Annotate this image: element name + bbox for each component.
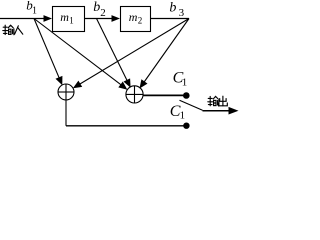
- wire b1 to right adder: [34, 19, 127, 90]
- wire b2 to right adder: [97, 19, 131, 88]
- 输 char: [3, 25, 14, 35]
- svg-text:b: b: [169, 1, 176, 16]
- output arrowhead: [229, 107, 239, 115]
- label 输入 (input): [3, 25, 23, 35]
- wire b3 to right adder: [140, 19, 190, 89]
- svg-text:m: m: [60, 10, 69, 24]
- wire m1 to m2: [85, 18, 113, 20]
- label 输出 (output): [208, 96, 228, 106]
- wire b3 to left adder: [73, 19, 189, 89]
- adder (XOR) right: [126, 86, 143, 103]
- svg-text:2: 2: [138, 15, 143, 25]
- input arrowhead into m1: [44, 15, 53, 22]
- 输 char: [208, 96, 219, 106]
- upper contact dot: [183, 92, 190, 99]
- svg-text:m: m: [129, 10, 138, 24]
- wire left adder down: [65, 100, 67, 126]
- svg-text:1: 1: [32, 5, 37, 16]
- adder (XOR) left: [58, 84, 74, 100]
- 出 char: [219, 96, 228, 106]
- wire bottom to lower contact: [66, 125, 184, 127]
- svg-text:2: 2: [100, 7, 106, 19]
- svg-text:1: 1: [180, 109, 186, 121]
- wire m2 to b3 node: [151, 18, 189, 20]
- svg-text:b: b: [93, 0, 100, 15]
- wire right adder to upper contact: [143, 94, 183, 96]
- register box m1: [53, 7, 85, 32]
- svg-text:1: 1: [182, 77, 188, 89]
- 入 char: [15, 26, 23, 34]
- svg-text:1: 1: [69, 15, 74, 25]
- wire b1 to left adder: [34, 19, 62, 86]
- input wire: [0, 18, 45, 20]
- svg-text:3: 3: [179, 7, 185, 19]
- lower contact dot: [183, 123, 189, 129]
- output wire: [203, 110, 231, 112]
- switch arm: [180, 100, 203, 110]
- arrowhead into m2: [112, 15, 121, 22]
- register box m2: [121, 7, 151, 32]
